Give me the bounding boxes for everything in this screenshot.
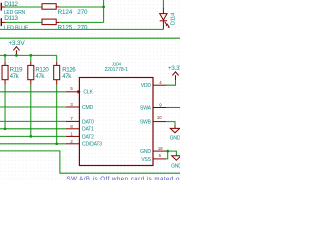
svg-text:+3.3V: +3.3V <box>168 65 180 72</box>
svg-text:47k: 47k <box>10 73 20 80</box>
wire row4 <box>0 37 180 39</box>
resistor R125 <box>42 19 59 25</box>
svg-text:VSS: VSS <box>141 157 151 163</box>
wire VDD to +3.3V <box>166 80 176 85</box>
wire row1 left <box>6 6 42 8</box>
diode D114 (LED, top right) <box>160 0 170 29</box>
svg-text:47k: 47k <box>35 73 45 80</box>
wire GND net <box>166 151 176 155</box>
node rail R120 <box>29 54 32 57</box>
svg-text:R125: R125 <box>58 24 73 31</box>
svg-text:DAT0: DAT0 <box>82 119 94 125</box>
svg-text:47k: 47k <box>62 73 72 80</box>
svg-text:R124: R124 <box>58 9 73 16</box>
wire +3.3V rail <box>0 54 57 56</box>
resistor R126 <box>54 55 60 143</box>
wire CMD <box>0 106 66 108</box>
wire CLK <box>0 91 66 93</box>
power +3.3V (left) <box>13 47 19 56</box>
node GND junction <box>166 150 169 153</box>
wire DAT0 <box>0 120 66 122</box>
diode D113 (LED BLUE, partially cut at left edge) <box>1 18 6 26</box>
wire CD/DAT3 <box>0 143 66 145</box>
wire DAT2 <box>0 135 66 137</box>
wire bottom bypass <box>0 151 180 173</box>
wire VSS up <box>166 151 168 159</box>
svg-text:LED BLUE: LED BLUE <box>4 25 29 31</box>
pin 18 GND <box>140 146 166 155</box>
pin 9 SWA <box>140 102 166 111</box>
svg-text:GND: GND <box>171 164 180 170</box>
svg-text:CLK: CLK <box>83 90 93 96</box>
node R119-DAT1 <box>4 127 7 130</box>
pin 8 DAT1 <box>66 124 94 133</box>
node rail R119 <box>4 54 7 57</box>
svg-text:DAT2: DAT2 <box>82 134 94 140</box>
resistor R124 <box>42 4 59 10</box>
ground (VSS/GND) <box>172 155 181 160</box>
node R120-DAT2 <box>29 135 32 138</box>
svg-text:SWA: SWA <box>140 105 152 111</box>
wire DAT1 <box>0 128 66 130</box>
pin 6 VSS <box>141 153 166 163</box>
svg-text:VDD: VDD <box>141 83 152 89</box>
node junction (103.6,6.9) <box>102 6 105 9</box>
svg-text:GND: GND <box>170 135 180 141</box>
svg-text:SW A/B is Off when card is mat: SW A/B is Off when card is mated or <box>67 176 181 180</box>
power +3.3V (right) <box>172 72 178 81</box>
node R126-DAT3 <box>55 142 58 145</box>
svg-text:CD/DAT3: CD/DAT3 <box>82 142 102 148</box>
wire row3 <box>0 28 163 30</box>
wire row2 right <box>59 21 104 23</box>
pin 5 CLK <box>66 86 94 96</box>
wire vertical net x=103.6 <box>103 0 105 22</box>
svg-text:GND: GND <box>140 149 151 155</box>
svg-text:D113: D113 <box>4 15 18 22</box>
wire SWA <box>166 107 180 109</box>
svg-text:DAT1: DAT1 <box>82 127 94 133</box>
svg-text:18: 18 <box>158 146 163 151</box>
svg-text:D114: D114 <box>170 12 176 25</box>
svg-text:270: 270 <box>77 24 88 31</box>
pin 10 SWB <box>140 115 166 126</box>
wire SWB to GND <box>166 122 175 126</box>
ground (SWB) <box>170 125 179 132</box>
wire row2 left <box>6 21 42 23</box>
svg-text:2201778-1: 2201778-1 <box>104 67 128 73</box>
svg-text:SWB: SWB <box>140 120 152 126</box>
pin 1 DAT2 <box>66 132 94 141</box>
pin 4 VDD <box>141 80 166 89</box>
pin 2 CD/DAT3 <box>66 139 102 148</box>
pin 7 DAT0 <box>66 116 94 125</box>
node rail arrow <box>15 54 18 57</box>
svg-text:270: 270 <box>77 9 88 16</box>
svg-text:CMD: CMD <box>82 105 93 111</box>
connector J104 box <box>79 78 153 166</box>
pin 3 CMD <box>66 102 94 111</box>
resistor R119 <box>2 55 8 128</box>
resistor R120 <box>28 55 34 136</box>
svg-text:+3.3V: +3.3V <box>8 40 25 47</box>
svg-text:10: 10 <box>157 115 162 120</box>
diode D112 (LED GRN, partially cut at left edge) <box>1 3 6 11</box>
wire row1 right <box>59 6 104 8</box>
